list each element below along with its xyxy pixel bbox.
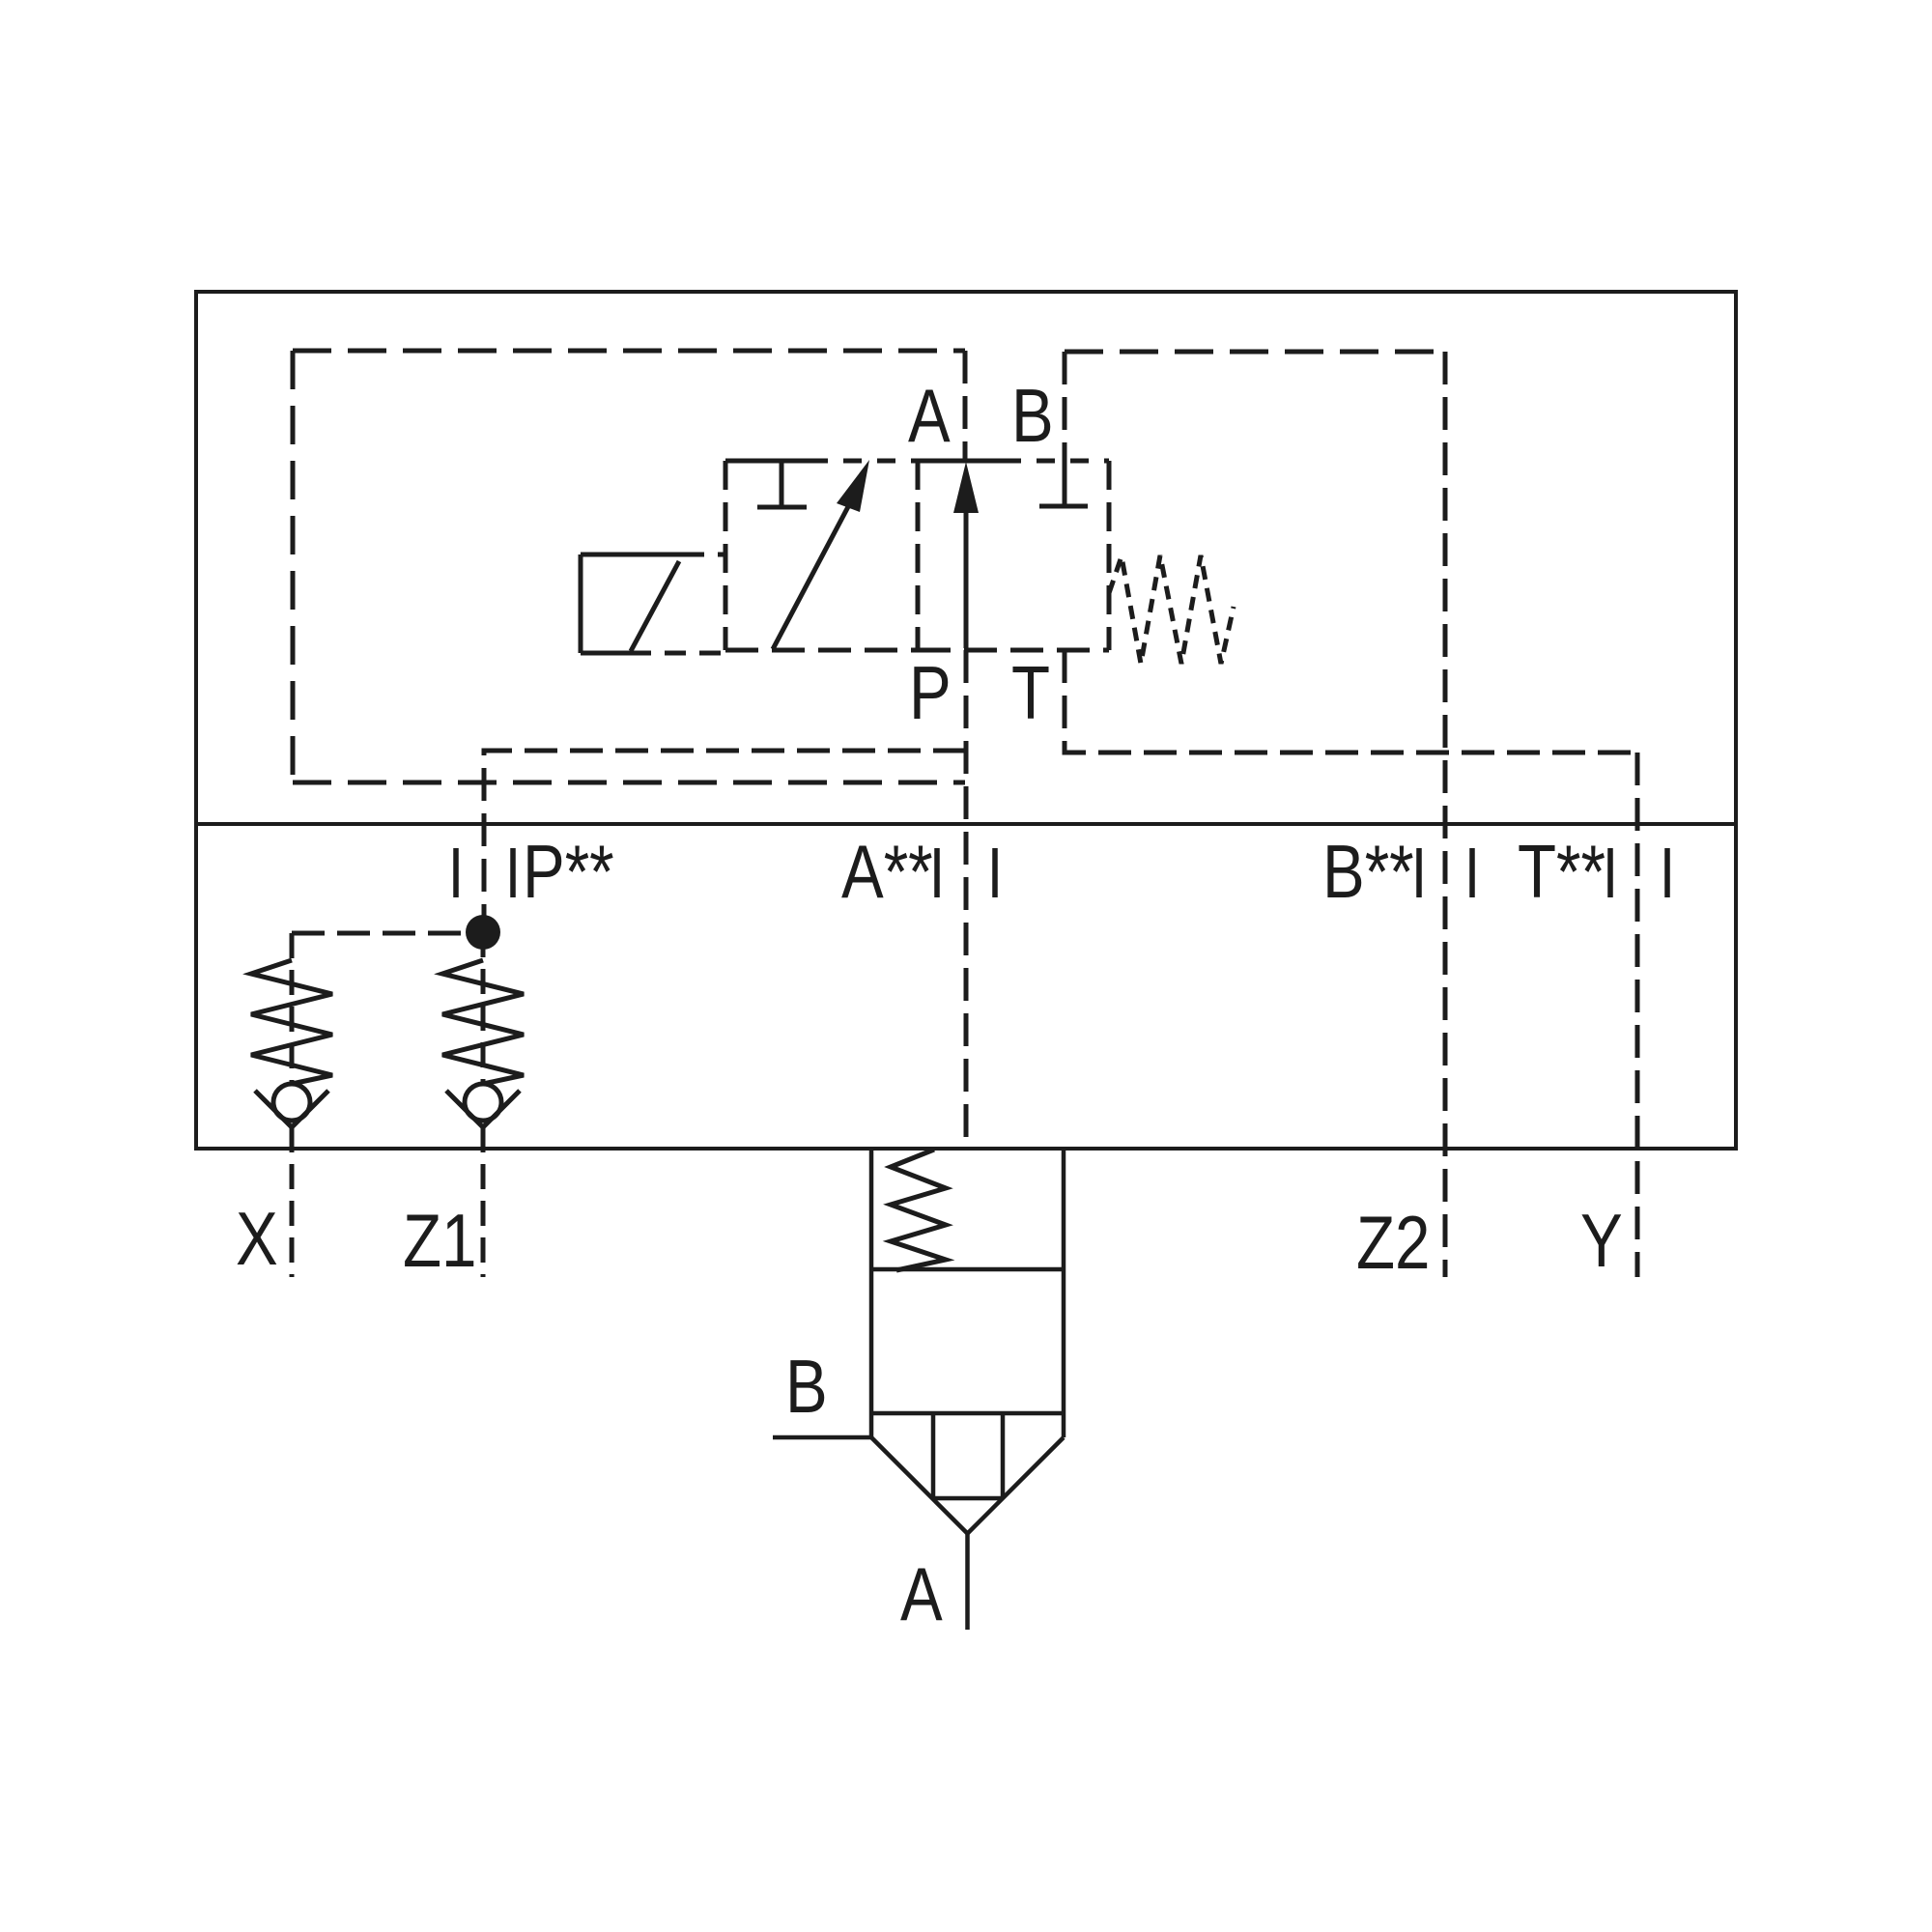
svg-text:T**: T** — [1518, 831, 1605, 915]
solenoid proportional slash — [631, 561, 679, 651]
cartridge spring — [891, 1150, 946, 1270]
wire P pilot supply branch — [484, 751, 966, 932]
pilot valve blocked port (left box) — [757, 461, 807, 507]
svg-text:Z1: Z1 — [403, 1200, 476, 1284]
svg-text:B**: B** — [1322, 831, 1414, 915]
label X port — [236, 1198, 278, 1282]
wire X port line — [290, 1127, 295, 1277]
label P (pilot valve) — [909, 652, 952, 736]
check valve X spring — [251, 960, 332, 1084]
svg-text:X: X — [236, 1198, 278, 1282]
pilot valve return spring — [1109, 555, 1234, 664]
wire T drain to Y — [1065, 650, 1636, 753]
label P** port — [523, 831, 614, 915]
wire B port line — [773, 1435, 871, 1440]
check valve Z1 seat — [446, 1091, 520, 1127]
svg-text:A: A — [908, 375, 951, 459]
label Z2 port — [1356, 1202, 1430, 1286]
pilot enclosure left frame right edge / node A riser — [963, 351, 968, 461]
svg-text:A: A — [900, 1553, 943, 1637]
subplate interface line — [196, 822, 1736, 826]
label B (cartridge) — [785, 1346, 828, 1430]
node Z1 junction dot — [466, 915, 500, 950]
label A (pilot valve) — [908, 375, 951, 459]
pilot enclosure right frame top edge — [1065, 350, 1445, 355]
label A (cartridge) — [900, 1553, 943, 1637]
pilot valve right box — [918, 461, 1109, 650]
svg-text:Y: Y — [1580, 1200, 1623, 1284]
label T (pilot valve) — [1011, 652, 1050, 736]
label Y port — [1580, 1200, 1623, 1284]
solenoid box — [581, 554, 725, 653]
label T** port — [1518, 831, 1605, 915]
port tick marks on interface — [456, 848, 1667, 897]
cartridge poppet nose — [871, 1437, 968, 1534]
pilot enclosure left frame top edge — [293, 349, 965, 354]
pilot enclosure right frame left edge / node B riser — [1063, 352, 1067, 461]
label A** port — [841, 831, 933, 915]
check valve Z1 ball — [465, 1084, 501, 1121]
pilot enclosure left frame left edge — [291, 351, 296, 782]
check valve X seat — [255, 1091, 328, 1127]
pilot valve proportional arrow — [773, 499, 852, 649]
pilot valve blocked port B (right box) — [1039, 461, 1088, 506]
pilot valve flow arrow P to A — [964, 506, 969, 648]
wire A pilot line (valve to cartridge) — [964, 650, 969, 1148]
check valve X riser — [290, 933, 295, 1084]
svg-text:P**: P** — [523, 831, 614, 915]
svg-text:T: T — [1011, 652, 1050, 736]
wire Y line — [1635, 753, 1640, 1277]
wire Z1 port line — [481, 1127, 486, 1277]
check valve X ball — [273, 1084, 310, 1121]
label Z1 port — [403, 1200, 476, 1284]
pilot enclosure left frame bottom edge — [293, 781, 965, 785]
svg-text:Z2: Z2 — [1356, 1202, 1430, 1286]
cartridge poppet seat — [931, 1413, 936, 1498]
svg-text:B: B — [1011, 375, 1054, 459]
cartridge valve body — [773, 1148, 1064, 1630]
wire Z2 pilot line — [1443, 352, 1448, 1277]
svg-text:P: P — [909, 652, 952, 736]
check valve Z1 riser — [481, 932, 486, 1084]
manifold block outline — [196, 292, 1736, 1149]
wire X to Z1 connector — [292, 931, 483, 936]
label B** port — [1322, 831, 1414, 915]
pilot valve left box — [725, 461, 918, 650]
svg-text:A**: A** — [841, 831, 933, 915]
label B (pilot valve) — [1011, 375, 1054, 459]
wire A port line — [965, 1534, 970, 1631]
svg-text:B: B — [785, 1346, 828, 1430]
check valve Z1 spring — [442, 960, 524, 1084]
